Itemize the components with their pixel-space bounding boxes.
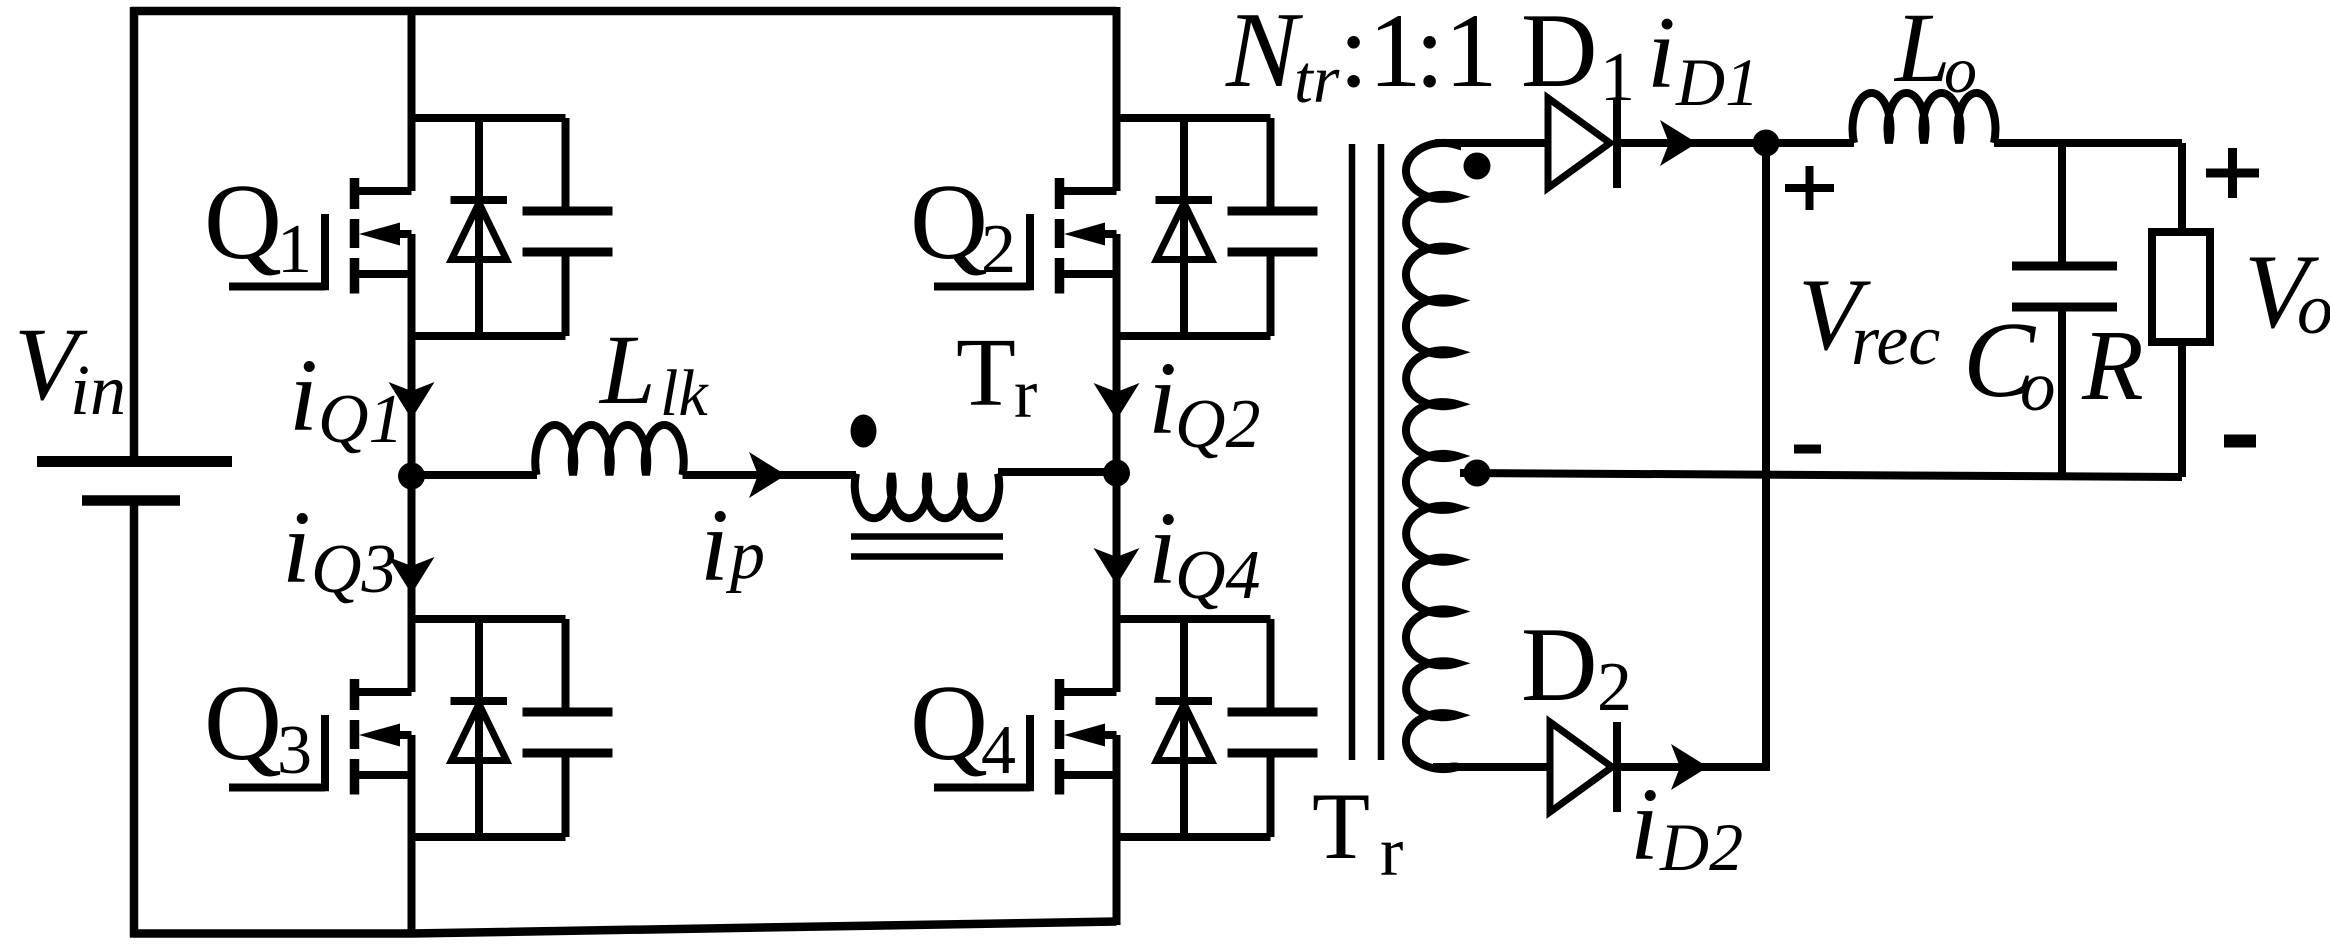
node A junction dot (left bridge midpoint) — [398, 463, 425, 490]
inductor Llk (leakage inductance) — [535, 425, 684, 475]
wire left bridge leg: Q3 source to bottom rail — [408, 735, 416, 936]
svg-text:rec: rec — [1851, 300, 1940, 380]
wire top rail — [131, 7, 1117, 16]
transformer primary winding (magnetizing inductance) — [855, 474, 1000, 519]
wire R top branch — [2178, 143, 2186, 232]
svg-text:T: T — [1312, 773, 1370, 879]
wire node A to Llk — [412, 471, 538, 479]
svg-text:1: 1 — [277, 211, 312, 288]
svg-text:D2: D2 — [1659, 809, 1743, 885]
diode D2 — [1550, 722, 1617, 812]
svg-text:D1: D1 — [1675, 44, 1759, 120]
transformer secondary winding — [1406, 143, 1457, 769]
svg-text:D: D — [1521, 606, 1598, 723]
wire left input rail (Vin minus) — [130, 505, 139, 938]
svg-text:Q: Q — [204, 163, 282, 282]
current arrow iQ1 — [389, 382, 435, 419]
current arrow iQ2 — [1094, 383, 1140, 420]
polarity dot secondary — [1464, 153, 1491, 180]
svg-text:Q3: Q3 — [311, 531, 397, 608]
plus sign Vrec — [1785, 166, 1834, 210]
minus sign Vo — [2224, 435, 2256, 448]
inductor Lo (output filter inductor) — [1853, 93, 1996, 143]
wire Co top branch — [2058, 143, 2066, 266]
svg-text:2: 2 — [981, 211, 1016, 288]
transistor Q4 (MOSFET with body diode and snubber capacitor) — [934, 619, 1318, 837]
current arrow ip — [749, 452, 786, 498]
svg-text:lk: lk — [660, 357, 709, 430]
wire bottom rail — [131, 922, 1117, 934]
svg-text:N: N — [1225, 0, 1304, 110]
polarity dot primary — [851, 415, 877, 448]
svg-text:i: i — [289, 338, 318, 453]
svg-text:r: r — [1380, 814, 1403, 891]
svg-text:R: R — [2081, 309, 2144, 421]
wire R bottom branch — [2178, 342, 2186, 477]
wire D2 cathode to rectifier vertical — [1614, 763, 1770, 771]
svg-text:2: 2 — [1597, 649, 1632, 726]
plus sign Vo — [2206, 148, 2259, 198]
svg-text:L: L — [598, 314, 656, 425]
wire right bridge leg: Q4 source to bottom rail — [1113, 735, 1121, 925]
svg-text:p: p — [725, 517, 765, 594]
wire D1 cathode to rectifier node — [1613, 139, 1766, 147]
svg-text:o: o — [2020, 348, 2056, 426]
current arrow iD1 — [1660, 120, 1697, 166]
svg-text:in: in — [70, 350, 126, 430]
svg-text::1: :1 — [1339, 0, 1421, 109]
wire transformer primary to node B — [998, 468, 1117, 476]
svg-text:i: i — [1148, 491, 1177, 606]
svg-text:Q4: Q4 — [1175, 537, 1261, 614]
current arrow iD2 — [1671, 744, 1708, 790]
svg-text:tr: tr — [1294, 41, 1340, 117]
svg-text:T: T — [956, 319, 1016, 427]
minus sign Vrec — [1794, 445, 1821, 454]
wire rectifier vertical (D2 cathode up to rectifier node) — [1762, 143, 1770, 767]
wire Co bottom branch — [2058, 307, 2066, 477]
svg-text:Q: Q — [910, 664, 988, 783]
wire center tap to output bottom right corner — [1460, 473, 2182, 477]
current arrow iQ4 — [1094, 548, 1140, 585]
svg-text:r: r — [1014, 356, 1037, 433]
current arrow iQ3 — [389, 557, 435, 594]
svg-text:o: o — [2297, 269, 2330, 349]
wire Llk to transformer primary — [683, 471, 857, 479]
wire left bridge leg: rail to Q1 drain — [408, 7, 416, 191]
wire right bridge leg: rail to Q2 drain — [1113, 7, 1121, 191]
battery Vin — [37, 462, 232, 501]
transformer primary core bars — [851, 537, 1003, 557]
resistor R (load) — [2152, 232, 2210, 342]
center tap junction dot — [1464, 460, 1491, 487]
svg-text:i: i — [1647, 0, 1676, 110]
wire left input rail (Vin plus) — [130, 7, 139, 457]
wire Lo to output top right corner — [1994, 139, 2182, 147]
transistor Q2 (MOSFET with body diode and snubber capacitor) — [934, 118, 1318, 336]
wire right bridge leg: Q2 source to node B to Q4 drain — [1113, 234, 1121, 692]
svg-text:Q2: Q2 — [1175, 386, 1261, 463]
svg-text:L: L — [1893, 0, 1951, 103]
svg-text:i: i — [700, 488, 729, 603]
svg-text:i: i — [1148, 341, 1177, 456]
svg-text:Q: Q — [910, 163, 988, 282]
transistor Q3 (MOSFET with body diode and snubber capacitor) — [229, 619, 613, 837]
transistor Q1 (MOSFET with body diode and snubber capacitor) — [229, 118, 613, 336]
rectifier output junction dot — [1753, 130, 1780, 157]
transformer secondary core bars — [1352, 144, 1381, 760]
svg-text:D: D — [1521, 0, 1598, 109]
capacitor Co — [2012, 266, 2117, 307]
node B junction dot (right bridge midpoint) — [1103, 460, 1130, 487]
wire secondary top to D1 anode — [1435, 139, 1548, 147]
diode D1 — [1548, 98, 1617, 188]
svg-text:i: i — [282, 490, 311, 605]
svg-text:Q: Q — [204, 664, 282, 783]
svg-text:4: 4 — [981, 712, 1016, 789]
svg-text::1: :1 — [1415, 0, 1497, 109]
svg-text:i: i — [1630, 767, 1659, 882]
svg-text:1: 1 — [1600, 39, 1635, 116]
wire rectifier node to Lo — [1766, 139, 1854, 147]
wire left bridge leg: Q1 source to node A to Q3 drain — [408, 234, 416, 692]
wire secondary bottom to D2 anode — [1433, 763, 1550, 771]
svg-text:Q1: Q1 — [318, 381, 404, 458]
svg-text:o: o — [1944, 34, 1977, 107]
svg-text:3: 3 — [277, 712, 312, 789]
